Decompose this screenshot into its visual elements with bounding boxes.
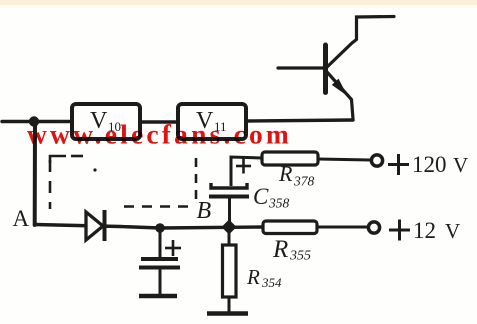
junction dot on main wire — [29, 116, 39, 126]
wire R355 to terminal — [317, 226, 367, 229]
resistor R378 — [262, 152, 318, 165]
module V10 box — [72, 104, 140, 139]
dashed box top dash — [71, 155, 83, 158]
wire vertical from junction down to node A — [33, 123, 37, 225]
capacitor C358 — [209, 195, 249, 199]
resistor R355 — [263, 221, 317, 234]
scan edge strip top — [0, 0, 477, 5]
capacitor C1 (unlabeled, polarized) — [159, 228, 162, 257]
terminal circle +120V — [371, 155, 382, 166]
ground under capacitor C1 — [139, 294, 177, 299]
svg-text:B: B — [197, 198, 212, 224]
dashed box stray dot — [93, 168, 96, 171]
plus sign of capacitor C358 — [236, 165, 251, 168]
svg-text:354: 354 — [261, 275, 282, 290]
terminal circle +12V — [368, 222, 379, 233]
svg-text:C: C — [253, 184, 269, 209]
diode D1 — [86, 212, 103, 240]
base bar — [323, 45, 328, 93]
wire node B down to R354 — [228, 231, 231, 245]
wire R378 to terminal — [318, 159, 370, 160]
dashed box left edge — [50, 156, 66, 163]
svg-text:R: R — [278, 161, 293, 186]
svg-text:V: V — [453, 153, 468, 177]
dashed box right edge — [195, 158, 198, 203]
wire main horizontal left segment — [2, 120, 72, 123]
wire R354 to ground — [228, 297, 231, 312]
junction dot on node A line — [155, 223, 165, 233]
node B junction diamond — [222, 220, 237, 235]
emitter wire — [327, 72, 353, 119]
label +120 V plus sign — [388, 163, 409, 166]
svg-text:12: 12 — [413, 218, 436, 243]
wire V11 to emitter — [246, 120, 353, 121]
svg-text:355: 355 — [289, 249, 311, 264]
module V11 box — [178, 104, 246, 139]
svg-text:A: A — [13, 206, 30, 231]
dashed box bottom edge — [124, 205, 194, 208]
label +12 V plus sign — [389, 229, 410, 232]
svg-text:V: V — [445, 219, 460, 243]
svg-text:R: R — [246, 265, 260, 289]
transistor Q1 — [278, 17, 394, 120]
svg-text:R: R — [272, 236, 288, 263]
collector wire — [326, 17, 394, 69]
base wire — [278, 66, 324, 69]
resistor R354 — [223, 245, 237, 297]
wire node B up to C358 — [228, 198, 231, 227]
wire between V10 and V11 — [140, 120, 179, 123]
plus sign of capacitor C1 — [165, 247, 181, 250]
svg-text:378: 378 — [293, 174, 315, 189]
emitter arrowhead — [332, 79, 348, 96]
svg-text:120: 120 — [412, 152, 447, 177]
wire from C358 up and right to R378 — [231, 157, 262, 186]
svg-text:358: 358 — [268, 196, 290, 211]
wire node A horizontal line — [35, 225, 264, 229]
svg-text:www.elecfans.com: www.elecfans.com — [27, 118, 292, 149]
ground under R354 — [207, 311, 248, 316]
